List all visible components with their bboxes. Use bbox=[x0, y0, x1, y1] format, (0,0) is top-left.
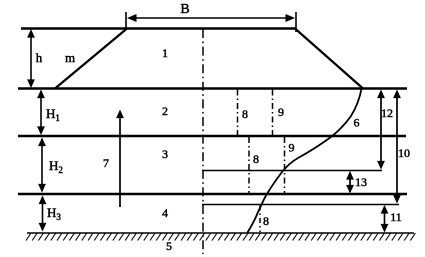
label 6 bbox=[354, 116, 360, 130]
svg-text:H2: H2 bbox=[49, 158, 63, 175]
embankment left slope bbox=[55, 29, 127, 89]
label 9 layer3 bbox=[289, 141, 295, 155]
label 10 bbox=[398, 146, 410, 160]
svg-text:m: m bbox=[65, 50, 75, 65]
label H3 bbox=[47, 205, 61, 222]
svg-text:h: h bbox=[36, 50, 43, 65]
svg-text:9: 9 bbox=[289, 141, 295, 155]
dimension h double arrow bbox=[30, 31, 32, 86]
embankment right slope bbox=[295, 29, 363, 89]
dashed line 9 in layer 2 bbox=[272, 90, 274, 136]
label 8 layer4 bbox=[263, 214, 269, 228]
svg-text:4: 4 bbox=[162, 206, 168, 220]
bedrock hatched line 5 bbox=[27, 232, 414, 234]
dimension 10 double arrow bbox=[396, 92, 398, 202]
dashed line 9 in layer 3 bbox=[284, 137, 286, 193]
svg-text:2: 2 bbox=[162, 104, 168, 118]
svg-text:5: 5 bbox=[166, 239, 172, 253]
curve 6 (influence depth curve) bbox=[248, 89, 362, 233]
arrow 7 (vertical up arrow) bbox=[119, 112, 121, 207]
label 9 layer2 bbox=[278, 105, 284, 119]
svg-text:9: 9 bbox=[278, 105, 284, 119]
svg-text:8: 8 bbox=[242, 107, 248, 121]
label B bbox=[180, 2, 189, 17]
crest line / embankment top (B level) bbox=[21, 27, 296, 29]
dimension B arrow bbox=[129, 17, 293, 19]
svg-text:H3: H3 bbox=[47, 205, 61, 222]
label 11 bbox=[390, 210, 402, 224]
dimension 11 double arrow bbox=[384, 207, 386, 232]
bedrock hatching strokes bbox=[26, 233, 415, 241]
label 3 bbox=[162, 147, 168, 161]
label 2 bbox=[162, 104, 168, 118]
dimension H3 double arrow bbox=[42, 197, 44, 230]
svg-text:10: 10 bbox=[398, 146, 410, 160]
label H2 bbox=[49, 158, 63, 175]
svg-text:13: 13 bbox=[355, 175, 367, 189]
svg-text:6: 6 bbox=[354, 116, 360, 130]
centre dash-dot axis line bbox=[202, 29, 204, 254]
dimension 13 double arrow bbox=[349, 173, 351, 193]
label 12 bbox=[381, 106, 393, 120]
label 13 bbox=[355, 175, 367, 189]
label 5 bbox=[166, 239, 172, 253]
svg-text:H1: H1 bbox=[46, 106, 60, 123]
label 4 bbox=[162, 206, 168, 220]
svg-text:8: 8 bbox=[263, 214, 269, 228]
label h bbox=[36, 50, 43, 65]
label H1 bbox=[46, 106, 60, 123]
layer 3 bottom line bbox=[18, 193, 407, 195]
label 7 bbox=[103, 156, 109, 170]
svg-text:3: 3 bbox=[162, 147, 168, 161]
layer 2 bottom line bbox=[18, 135, 406, 137]
svg-text:B: B bbox=[180, 2, 189, 17]
label 1 bbox=[162, 46, 168, 60]
svg-text:11: 11 bbox=[390, 210, 402, 224]
svg-text:1: 1 bbox=[162, 46, 168, 60]
label 8 layer2 bbox=[242, 107, 248, 121]
dimension B tick left bbox=[125, 12, 127, 30]
label m bbox=[65, 50, 75, 65]
dimension H1 double arrow bbox=[40, 91, 42, 133]
dimension H2 double arrow bbox=[41, 139, 43, 191]
svg-text:12: 12 bbox=[381, 106, 393, 120]
dashed line 8 in layer 3 bbox=[248, 137, 250, 193]
dashed line 8 in layer 2 bbox=[237, 90, 239, 136]
intermediate line in layer 4 (dimension 11 top) bbox=[202, 204, 399, 206]
ground surface line bbox=[18, 87, 407, 89]
dimension B tick right bbox=[295, 12, 297, 32]
svg-text:7: 7 bbox=[103, 156, 109, 170]
dimension 12 double arrow bbox=[380, 92, 382, 168]
dashed line 8 in layer 4 bbox=[259, 206, 261, 233]
label 8 layer3 bbox=[253, 152, 259, 166]
svg-text:8: 8 bbox=[253, 152, 259, 166]
intermediate line in layer 3 (dimension 13 top) bbox=[202, 170, 382, 172]
